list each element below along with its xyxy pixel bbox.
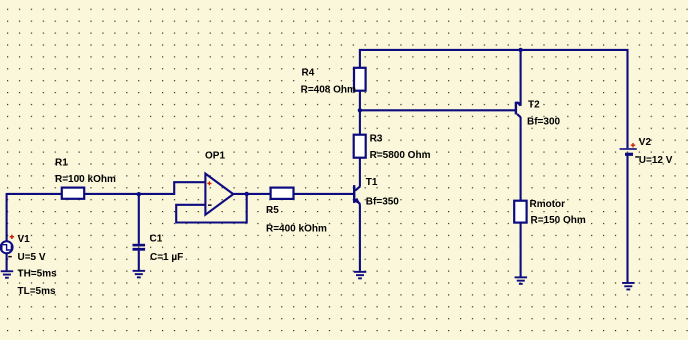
wire top supply rail	[360, 50, 628, 148]
label C1 value	[150, 252, 183, 263]
label T2 value	[527, 116, 561, 127]
ground under V1	[1, 270, 14, 278]
transistor T2	[515, 102, 521, 118]
label V1 value TH	[18, 269, 58, 280]
svg-text:Bf=350: Bf=350	[366, 196, 400, 207]
resistor R1	[62, 188, 84, 199]
op-amp OP1	[205, 174, 233, 215]
svg-text:V2: V2	[639, 137, 652, 148]
svg-text:TL=5ms: TL=5ms	[18, 286, 57, 297]
svg-text:R=100 kOhm: R=100 kOhm	[55, 174, 116, 185]
svg-text:R5: R5	[266, 205, 279, 216]
label V1 value TL	[18, 286, 57, 297]
label T1 value	[366, 196, 400, 207]
svg-text:Bf=300: Bf=300	[527, 116, 561, 127]
wire Rmotor to ground	[520, 223, 522, 277]
label OP1	[205, 150, 225, 161]
voltage source V2	[620, 143, 639, 158]
label R1 value	[55, 174, 116, 185]
resistor R5	[271, 188, 294, 199]
node junction at top rail	[518, 48, 522, 52]
label R3 value	[370, 150, 431, 161]
svg-text:R1: R1	[55, 158, 68, 169]
wire T2 emitter drop from rail	[520, 50, 522, 106]
ground under V2	[622, 282, 635, 290]
wire C1 riser	[138, 193, 140, 244]
svg-text:R=5800 Ohm: R=5800 Ohm	[370, 150, 431, 161]
label T1	[366, 177, 378, 188]
resistor Rmotor	[514, 201, 526, 223]
wire T1 emitter to ground	[359, 204, 361, 271]
svg-text:U=5 V: U=5 V	[18, 252, 46, 263]
svg-text:T2: T2	[528, 99, 540, 110]
svg-text:R=150 Ohm: R=150 Ohm	[531, 215, 586, 226]
label V1 value U	[18, 252, 46, 263]
wire base rail to T2	[360, 109, 516, 111]
svg-text:R3: R3	[370, 134, 383, 145]
node junction at op-amp feedback	[245, 192, 249, 196]
wire R3 to T1 collector	[359, 158, 361, 187]
voltage source V1	[1, 235, 15, 258]
label V2	[639, 137, 652, 148]
label R4 value	[301, 84, 356, 95]
ground under C1	[133, 270, 146, 278]
wire feedback loop to op-amp - input	[176, 194, 247, 223]
label R3	[370, 134, 383, 145]
label V1	[18, 234, 31, 245]
svg-text:U=12 V: U=12 V	[639, 155, 673, 166]
capacitor C1	[133, 244, 146, 251]
resistor R3	[354, 135, 366, 158]
label R5 value	[266, 223, 327, 234]
wire C1 to ground	[138, 251, 140, 271]
wire main input from V1 to op-amp jog	[7, 193, 175, 195]
wire R4 to R3	[359, 91, 361, 135]
svg-text:C=1 µF: C=1 µF	[150, 252, 183, 263]
label R5	[266, 205, 279, 216]
wire R5 to T1 base	[294, 193, 354, 195]
label C1	[150, 233, 163, 244]
ground under T1	[354, 271, 367, 279]
wire V2 to ground	[626, 156, 628, 282]
label R1	[55, 158, 68, 169]
svg-text:T1: T1	[366, 177, 378, 188]
svg-text:Rmotor: Rmotor	[530, 199, 566, 210]
svg-text:R=408 Ohm: R=408 Ohm	[301, 84, 356, 95]
svg-text:OP1: OP1	[205, 150, 225, 161]
wire V1 to ground	[6, 252, 8, 271]
svg-text:R=400 kOhm: R=400 kOhm	[266, 223, 327, 234]
label V2 value	[639, 155, 673, 166]
svg-text:R4: R4	[302, 67, 315, 78]
transistor T1	[353, 185, 360, 204]
label Rmotor	[530, 199, 566, 210]
resistor R4	[354, 68, 366, 91]
wire V1 riser	[6, 193, 8, 242]
node junction at C1	[137, 192, 141, 196]
label T2	[528, 99, 540, 110]
svg-text:V1: V1	[18, 234, 31, 245]
ground under Rmotor	[515, 276, 528, 284]
label Rmotor value	[531, 215, 586, 226]
wire T2 collector to Rmotor	[520, 117, 522, 201]
node junction at base rail	[358, 108, 362, 112]
label R4	[302, 67, 315, 78]
wire op-amp output to R5	[233, 193, 271, 195]
svg-text:TH=5ms: TH=5ms	[18, 269, 58, 280]
svg-text:C1: C1	[150, 233, 163, 244]
wire jog up to op-amp + input	[174, 182, 205, 195]
